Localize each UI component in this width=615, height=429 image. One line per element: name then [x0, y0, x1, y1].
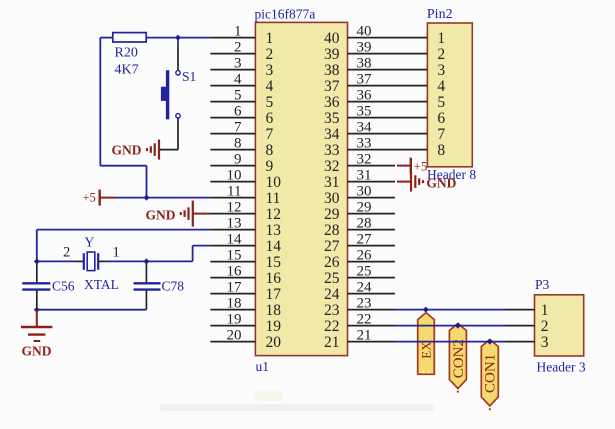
svg-text:14: 14 — [266, 238, 282, 255]
svg-text:4: 4 — [266, 78, 274, 95]
svg-text:1: 1 — [113, 245, 120, 261]
svg-text:31: 31 — [357, 167, 372, 183]
u1 pin 13 stub (left) with pin number and net label 13 — [210, 215, 281, 238]
wire: R20 left lead — [100, 37, 113, 39]
svg-text:1: 1 — [234, 23, 242, 39]
svg-text:18: 18 — [266, 302, 282, 319]
u1 pin 35 stub (right) with pin number and net label 35 — [324, 103, 395, 126]
crystal Y1 left lead — [37, 260, 84, 262]
wire: u1 pin 34 to Pin2 pin 7 — [395, 133, 427, 135]
svg-text:28: 28 — [324, 222, 340, 239]
svg-text:7: 7 — [266, 126, 274, 143]
wire: u1 pin 36 to Pin2 pin 5 — [395, 101, 427, 103]
svg-text:1: 1 — [541, 302, 549, 319]
port/banner EX on net of u1 pin 23 — [418, 313, 435, 375]
svg-text:C56: C56 — [52, 278, 75, 293]
junction at R20/S1/pin1 node — [175, 35, 181, 41]
junction at crystal left node — [34, 258, 40, 264]
crystal Y1 symbol — [84, 252, 98, 271]
svg-text:9: 9 — [234, 151, 242, 167]
svg-text:23: 23 — [324, 302, 340, 319]
svg-text:CON2: CON2 — [451, 339, 467, 378]
svg-text:16: 16 — [266, 270, 282, 287]
svg-text:R20: R20 — [115, 46, 138, 61]
svg-text:2: 2 — [541, 318, 549, 335]
svg-text:34: 34 — [324, 126, 340, 143]
u1 pin 4 stub (left) with pin number and net label 4 — [210, 71, 273, 94]
svg-text:10: 10 — [227, 167, 242, 183]
u1 pin 14 stub (left) with pin number and net label 14 — [210, 231, 281, 254]
capacitor C78 plates — [134, 283, 161, 289]
svg-text:40: 40 — [324, 30, 340, 47]
svg-text:8: 8 — [437, 142, 445, 159]
junction at ground node — [34, 307, 40, 313]
svg-text:26: 26 — [357, 247, 373, 263]
u1 pin 22 stub (right) with pin number and net label 22 — [324, 311, 395, 334]
u1 pin 34 stub (right) with pin number and net label 34 — [324, 119, 395, 142]
u1 pin 36 stub (right) with pin number and net label 36 — [324, 87, 395, 110]
svg-text:21: 21 — [357, 327, 372, 343]
u1 pin 28 stub (right) with pin number and net label 28 — [324, 215, 395, 238]
power ground symbol at u1 pin 31 — [397, 172, 423, 192]
svg-text:2: 2 — [63, 245, 70, 261]
svg-text:+5: +5 — [83, 191, 96, 205]
svg-text:29: 29 — [324, 206, 340, 223]
svg-text:GND: GND — [22, 344, 52, 359]
svg-text:pic16f877a: pic16f877a — [255, 7, 316, 22]
port/banner CON2 on net of u1 pin 22 — [449, 324, 467, 393]
svg-text:Pin2: Pin2 — [427, 7, 453, 22]
crystal Y1 right lead — [98, 260, 146, 262]
svg-text:13: 13 — [266, 222, 282, 239]
u1 pin 31 stub (right) with pin number and net label 31 — [324, 167, 395, 190]
svg-text:5: 5 — [437, 94, 445, 111]
svg-text:6: 6 — [234, 103, 242, 119]
svg-text:5: 5 — [266, 94, 274, 111]
svg-text:9: 9 — [266, 158, 274, 175]
svg-text:15: 15 — [266, 254, 282, 271]
wire: u1 pin 39 to Pin2 pin 2 — [395, 53, 427, 55]
svg-text:37: 37 — [357, 71, 373, 87]
u1 pin 39 stub (right) with pin number and net label 39 — [324, 39, 395, 62]
u1 pin 10 stub (left) with pin number and net label 10 — [210, 167, 281, 190]
svg-text:19: 19 — [266, 318, 282, 335]
svg-text:6: 6 — [266, 110, 274, 127]
svg-text:u1: u1 — [256, 359, 270, 374]
svg-text:12: 12 — [266, 206, 282, 223]
svg-text:7: 7 — [437, 126, 445, 143]
u1 pin 7 stub (left) with pin number and net label 7 — [210, 119, 273, 142]
svg-text:36: 36 — [357, 87, 373, 103]
wire: u1 pin 38 to Pin2 pin 3 — [395, 69, 427, 71]
svg-text:17: 17 — [266, 286, 282, 303]
u1 pin 38 stub (right) with pin number and net label 38 — [324, 55, 395, 78]
wire: u1 pin 22 to P3 — [395, 325, 506, 327]
P3 pin 2 stub — [506, 325, 535, 327]
svg-text:3: 3 — [234, 55, 242, 71]
svg-text:38: 38 — [357, 55, 372, 71]
u1 pin 37 stub (right) with pin number and net label 37 — [324, 71, 395, 94]
svg-text:2: 2 — [266, 46, 274, 63]
svg-text:C78: C78 — [162, 278, 185, 293]
wire: u1 pin 37 to Pin2 pin 4 — [395, 85, 427, 87]
connector P3 body (Header 3) — [535, 295, 584, 356]
power ground symbol at u1 pin 12 — [181, 201, 211, 227]
svg-text:10: 10 — [266, 174, 282, 191]
svg-text:7: 7 — [234, 119, 242, 135]
svg-text:19: 19 — [227, 311, 242, 327]
u1 pin 2 stub (left) with pin number and net label 2 — [210, 39, 273, 62]
u1 pin 12 stub (left) with pin number and net label 12 — [210, 199, 281, 222]
svg-text:35: 35 — [324, 110, 340, 127]
u1 pin 23 stub (right) with pin number and net label 23 — [324, 295, 395, 318]
wire: loop vertical down to +5 net — [146, 166, 148, 198]
power +5 symbol at u1 pin 32 — [397, 158, 411, 174]
svg-text:27: 27 — [357, 231, 373, 247]
svg-text:24: 24 — [324, 286, 340, 303]
u1 pin 15 stub (left) with pin number and net label 15 — [210, 247, 281, 270]
svg-text:15: 15 — [227, 247, 242, 263]
u1 pin 18 stub (left) with pin number and net label 18 — [210, 295, 281, 318]
svg-text:11: 11 — [227, 183, 241, 199]
svg-text:P3: P3 — [535, 277, 550, 292]
svg-text:17: 17 — [227, 279, 243, 295]
svg-text:+5: +5 — [414, 159, 428, 174]
P3 pin 1 stub — [506, 309, 535, 311]
svg-text:33: 33 — [357, 135, 372, 151]
P3 pin 3 stub — [506, 341, 535, 343]
svg-text:26: 26 — [324, 254, 340, 271]
svg-text:22: 22 — [324, 318, 340, 335]
wire: junction down to S1 top — [177, 38, 179, 71]
u1 pin 9 stub (left) with pin number and net label 9 — [210, 151, 273, 174]
svg-text:3: 3 — [266, 62, 274, 79]
u1 pin 19 stub (left) with pin number and net label 19 — [210, 311, 281, 334]
svg-text:8: 8 — [234, 135, 242, 151]
svg-text:GND: GND — [426, 176, 456, 191]
svg-text:12: 12 — [227, 199, 242, 215]
u1 pin 3 stub (left) with pin number and net label 3 — [210, 55, 273, 78]
junction on net 21 (CON1) — [487, 339, 493, 345]
wire: u1 pin 21 to P3 — [395, 341, 506, 343]
u1 pin 6 stub (left) with pin number and net label 6 — [210, 103, 273, 126]
svg-text:14: 14 — [227, 231, 243, 247]
svg-text:4: 4 — [437, 78, 445, 95]
wire: +5 loop left vertical — [99, 38, 101, 166]
wire: +5 to u1 pin 11 — [117, 197, 211, 199]
svg-text:27: 27 — [324, 238, 340, 255]
u1 pin 21 stub (right) with pin number and net label 21 — [324, 327, 395, 350]
resistor R20 body — [113, 33, 146, 42]
u1 pin 11 stub (left) with pin number and net label 11 — [210, 183, 280, 206]
svg-text:24: 24 — [357, 279, 373, 295]
svg-text:2: 2 — [437, 46, 445, 63]
wire: u1 pin 13 to crystal left node — [37, 230, 211, 262]
u1 pin 40 stub (right) with pin number and net label 40 — [324, 23, 395, 46]
junction at crystal right node — [143, 258, 149, 264]
svg-text:11: 11 — [266, 190, 281, 207]
svg-text:GND: GND — [112, 143, 142, 158]
svg-text:S1: S1 — [182, 69, 196, 84]
svg-text:35: 35 — [357, 103, 372, 119]
svg-text:4: 4 — [234, 71, 242, 87]
port/banner CON1 on net of u1 pin 21 — [481, 340, 498, 411]
svg-text:39: 39 — [324, 46, 340, 63]
wire: S1 bottom to ground — [159, 118, 178, 149]
svg-text:38: 38 — [324, 62, 340, 79]
svg-text:5: 5 — [234, 87, 242, 103]
capacitor C56 plates — [22, 283, 50, 289]
power +5 symbol at u1 pin 11 net — [100, 190, 117, 206]
u1 pin 20 stub (left) with pin number and net label 20 — [210, 327, 281, 350]
svg-text:GND: GND — [146, 208, 176, 223]
svg-text:30: 30 — [324, 190, 340, 207]
u1 pin 5 stub (left) with pin number and net label 5 — [210, 87, 273, 110]
svg-text:34: 34 — [357, 119, 373, 135]
svg-text:Header 3: Header 3 — [537, 360, 586, 375]
u1 pin 29 stub (right) with pin number and net label 29 — [324, 199, 395, 222]
u1 pin 25 stub (right) with pin number and net label 25 — [324, 263, 395, 286]
svg-text:8: 8 — [266, 142, 274, 159]
u1 pin 27 stub (right) with pin number and net label 27 — [324, 231, 395, 254]
u1 pin 17 stub (left) with pin number and net label 17 — [210, 279, 281, 302]
svg-text:25: 25 — [357, 263, 372, 279]
wire: u1 pin 35 to Pin2 pin 6 — [395, 117, 427, 119]
svg-text:3: 3 — [541, 334, 549, 351]
svg-text:21: 21 — [324, 334, 340, 351]
svg-text:CON1: CON1 — [483, 354, 499, 393]
capacitor C78 leads — [145, 261, 147, 309]
u1 pin 8 stub (left) with pin number and net label 8 — [210, 135, 273, 158]
svg-text:25: 25 — [324, 270, 340, 287]
svg-text:1: 1 — [437, 30, 445, 47]
earth ground symbol (crystal circuit) — [21, 310, 52, 341]
svg-text:37: 37 — [324, 78, 340, 95]
svg-text:XTAL: XTAL — [84, 277, 119, 292]
svg-text:13: 13 — [227, 215, 242, 231]
svg-text:39: 39 — [357, 39, 372, 55]
svg-text:18: 18 — [227, 295, 242, 311]
junction on net 22 (CON2) — [455, 323, 461, 329]
svg-text:32: 32 — [324, 158, 340, 175]
wire: loop horizontal to x146.5 — [100, 165, 146, 167]
capacitor C56 leads — [36, 261, 38, 309]
svg-text:1: 1 — [266, 30, 274, 47]
svg-text:31: 31 — [324, 174, 340, 191]
power ground symbol below S1 — [147, 140, 159, 160]
wire: R20 right to junction to u1 pin 1 — [146, 37, 210, 39]
wire: capacitor bottoms common — [37, 309, 147, 311]
svg-text:6: 6 — [437, 110, 445, 127]
wire: u1 pin 40 to Pin2 pin 1 — [395, 37, 427, 39]
svg-text:33: 33 — [324, 142, 340, 159]
svg-text:29: 29 — [357, 199, 372, 215]
u1 pin 1 stub (left) with pin number and net label 1 — [210, 23, 273, 46]
svg-text:23: 23 — [357, 295, 372, 311]
svg-text:22: 22 — [357, 311, 372, 327]
svg-text:2: 2 — [234, 39, 242, 55]
junction on +5 net — [144, 195, 150, 201]
svg-text:20: 20 — [266, 334, 282, 351]
svg-text:3: 3 — [437, 62, 445, 79]
wire: u1 pin 23 to P3 — [395, 309, 506, 311]
svg-text:28: 28 — [357, 215, 372, 231]
u1 pin 16 stub (left) with pin number and net label 16 — [210, 263, 281, 286]
svg-text:30: 30 — [357, 183, 372, 199]
svg-text:Y: Y — [85, 235, 95, 250]
svg-text:40: 40 — [357, 23, 372, 39]
svg-text:32: 32 — [357, 151, 372, 167]
IC U1 body (pic16f877a) — [255, 22, 347, 355]
u1 pin 30 stub (right) with pin number and net label 30 — [324, 183, 395, 206]
svg-text:36: 36 — [324, 94, 340, 111]
svg-text:4K7: 4K7 — [115, 63, 139, 78]
(faint watermark smudge) — [160, 390, 435, 411]
wire: u1 pin 33 to Pin2 pin 8 — [395, 149, 427, 151]
wire: u1 pin 14 jog to crystal right node — [146, 246, 210, 262]
svg-text:16: 16 — [227, 263, 243, 279]
connector Pin2 body (Header 8) — [427, 23, 472, 167]
u1 pin 33 stub (right) with pin number and net label 33 — [324, 135, 395, 158]
svg-text:EX: EX — [419, 341, 434, 359]
switch S1 (push button) — [161, 70, 180, 119]
u1 pin 26 stub (right) with pin number and net label 26 — [324, 247, 395, 270]
junction on net 23 (EX) — [423, 307, 429, 313]
svg-text:20: 20 — [227, 327, 242, 343]
u1 pin 24 stub (right) with pin number and net label 24 — [324, 279, 395, 302]
u1 pin 32 stub (right) with pin number and net label 32 — [324, 151, 395, 174]
